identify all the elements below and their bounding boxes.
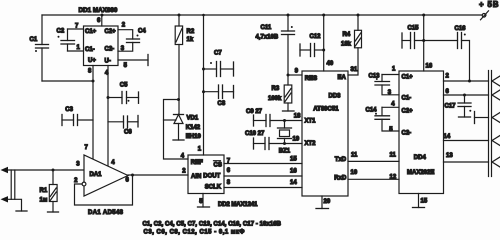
svg-text:BZ1: BZ1 <box>279 149 291 155</box>
svg-text:20: 20 <box>324 199 331 205</box>
svg-text:10: 10 <box>351 170 358 176</box>
svg-text:9: 9 <box>295 68 299 74</box>
crystal BZ1 <box>284 121 286 129</box>
svg-text:AIN: AIN <box>191 174 201 180</box>
pin 15 ground DD4 <box>418 194 420 208</box>
pin 20 ground DD3 <box>321 196 323 209</box>
svg-text:DA1 AD548: DA1 AD548 <box>88 210 124 216</box>
connector contact pin6 <box>492 90 500 100</box>
wire C1 to U+ line <box>42 80 93 82</box>
svg-text:+ 5В: + 5В <box>479 0 499 9</box>
svg-text:C3: C3 <box>65 107 73 113</box>
svg-text:1k: 1k <box>187 37 194 43</box>
IC DD1 MAX680 <box>84 26 119 66</box>
svg-text:6: 6 <box>97 18 101 24</box>
svg-text:1: 1 <box>392 67 396 73</box>
svg-text:C1-: C1- <box>402 95 412 101</box>
svg-text:C7: C7 <box>214 51 222 57</box>
svg-text:XT1: XT1 <box>305 119 317 125</box>
connector contact ground <box>492 113 500 123</box>
svg-text:MAX202E: MAX202E <box>407 170 434 176</box>
svg-text:C2+: C2+ <box>105 29 117 35</box>
resistor R4 18k <box>357 15 359 30</box>
svg-text:C1-: C1- <box>85 47 95 53</box>
svg-text:DOUT: DOUT <box>203 174 220 180</box>
node output junction <box>131 174 134 177</box>
svg-text:C3, C6, C8, C12, C15 - 0,1 мк: C3, C6, C8, C12, C15 - 0,1 мкФ <box>144 230 245 236</box>
svg-text:DD2 MAX1241: DD2 MAX1241 <box>218 202 258 208</box>
svg-text:TxD: TxD <box>335 157 347 163</box>
capacitor C4 <box>127 38 140 40</box>
wire output to AIN <box>128 174 188 176</box>
capacitor C11 <box>287 15 289 31</box>
zener VD1 K142EH19 <box>174 114 184 116</box>
svg-text:C10 27: C10 27 <box>245 131 265 137</box>
svg-text:XT2: XT2 <box>305 141 317 147</box>
svg-text:1: 1 <box>77 45 81 51</box>
svg-text:C2: C2 <box>57 29 65 35</box>
capacitor C3 <box>61 115 63 126</box>
svg-text:VD1: VD1 <box>187 115 199 121</box>
svg-text:C9 27: C9 27 <box>246 109 263 115</box>
pin 6 wire DD4 <box>444 94 489 96</box>
svg-text:C13: C13 <box>369 74 381 80</box>
svg-text:15: 15 <box>290 157 297 163</box>
svg-text:R3: R3 <box>272 86 280 92</box>
connector X1 body <box>488 71 490 177</box>
svg-text:AT89C51: AT89C51 <box>313 107 339 113</box>
svg-text:RES: RES <box>305 76 317 82</box>
svg-text:11: 11 <box>351 153 358 159</box>
wire DOUT bus <box>224 175 302 177</box>
svg-text:EA: EA <box>338 75 347 81</box>
wire REF branch to DD2 <box>164 100 189 160</box>
resistor R1 1M <box>52 170 54 185</box>
svg-text:14: 14 <box>444 134 451 140</box>
svg-text:14: 14 <box>290 180 297 186</box>
svg-text:R4: R4 <box>343 32 351 38</box>
svg-text:C1+: C1+ <box>85 29 97 35</box>
svg-text:K142: K142 <box>186 125 201 131</box>
svg-text:8: 8 <box>88 69 92 75</box>
ground VD1 <box>173 139 184 141</box>
capacitor C17 <box>464 95 466 103</box>
capacitor C6 <box>108 121 124 123</box>
svg-text:C1+: C1+ <box>402 74 414 80</box>
svg-text:REF: REF <box>191 160 203 166</box>
svg-text:C5: C5 <box>120 82 128 88</box>
svg-text:1: 1 <box>198 147 202 153</box>
wire cable shield lines <box>10 170 12 199</box>
pin 4 wire DD4 <box>382 106 399 108</box>
pin 2 input circle <box>82 182 86 186</box>
IC DD3 AT89C51 <box>302 71 348 196</box>
node REF branch <box>177 98 180 101</box>
wire +5V top rail <box>42 14 486 16</box>
ground C17 <box>459 116 471 118</box>
pin 40 DD3 <box>323 15 325 71</box>
svg-text:DD4: DD4 <box>414 155 427 161</box>
connector contact pin13 <box>492 157 500 167</box>
pin 2 wire <box>118 30 133 39</box>
capacitor C16 <box>457 33 459 49</box>
svg-text:C11: C11 <box>261 25 272 31</box>
svg-text:100k: 100k <box>268 96 282 102</box>
svg-text:2: 2 <box>446 74 450 80</box>
wire feedback loop <box>75 175 133 205</box>
svg-text:C17: C17 <box>445 104 457 110</box>
capacitor C14 <box>381 107 383 116</box>
svg-text:7: 7 <box>85 145 89 151</box>
op-amp DA1 <box>84 155 128 196</box>
svg-text:16: 16 <box>290 169 297 175</box>
svg-text:8: 8 <box>227 180 231 186</box>
svg-text:18k: 18k <box>341 42 352 48</box>
svg-text:C2-: C2- <box>402 131 412 137</box>
svg-text:C2-: C2- <box>105 46 115 52</box>
capacitor C9 <box>253 115 255 126</box>
capacitor C7 <box>202 68 205 71</box>
svg-text:R1: R1 <box>40 188 48 194</box>
wire XT1 <box>270 120 302 122</box>
wire SCLK bus <box>224 187 302 189</box>
wire TxD <box>348 160 399 162</box>
pin 13 wire DD4 <box>444 161 489 163</box>
capacitor C2 <box>67 29 69 41</box>
svg-text:C8: C8 <box>218 101 226 107</box>
ground shield <box>16 210 27 212</box>
svg-text:19: 19 <box>293 137 300 143</box>
pin 5 ground DD2 <box>202 194 204 208</box>
connector contact pin14 <box>492 136 500 146</box>
svg-text:CS: CS <box>214 163 222 169</box>
svg-text:DA1: DA1 <box>90 172 103 178</box>
capacitor C15 <box>401 33 403 48</box>
capacitor C13 <box>381 75 383 82</box>
svg-text:6: 6 <box>227 168 231 174</box>
svg-text:RxD: RxD <box>334 176 347 182</box>
svg-text:31: 31 <box>351 67 358 73</box>
svg-text:18: 18 <box>294 114 301 120</box>
connector input terminal top <box>1 167 9 173</box>
svg-text:4,7x10В: 4,7x10В <box>256 35 279 41</box>
svg-text:C15: C15 <box>408 26 420 32</box>
pin 2 wire DD4 <box>444 80 489 82</box>
pin 16 DD4 <box>423 15 425 71</box>
pin 1 wire <box>68 50 84 52</box>
svg-text:C1: C1 <box>30 37 38 43</box>
pin 4 U- line down to op-amp <box>107 66 109 166</box>
IC DD4 MAX202E <box>399 71 444 194</box>
svg-text:13: 13 <box>446 153 453 159</box>
svg-text:1м: 1м <box>40 198 48 204</box>
svg-text:EH19: EH19 <box>186 134 202 140</box>
pin 5 wire with stub <box>118 59 148 61</box>
ground R1 <box>48 211 59 213</box>
ground R3 <box>283 110 295 112</box>
resistor R3 100k <box>287 75 289 85</box>
svg-text:2: 2 <box>74 178 78 184</box>
svg-text:5: 5 <box>124 63 128 69</box>
capacitor C12 <box>299 44 301 56</box>
capacitor C10 <box>253 138 255 149</box>
wire CS bus <box>224 163 302 165</box>
svg-text:C2+: C2+ <box>402 108 414 114</box>
wire shield to ground <box>8 199 22 211</box>
svg-text:R2: R2 <box>187 29 195 35</box>
svg-text:C14: C14 <box>366 108 378 114</box>
svg-text:16: 16 <box>426 63 433 69</box>
svg-text:40: 40 <box>327 61 334 67</box>
svg-text:3: 3 <box>76 162 80 168</box>
connector input terminal bottom <box>1 196 9 202</box>
connector +5V terminal <box>482 14 486 18</box>
svg-text:DD1 MAX680: DD1 MAX680 <box>79 7 118 14</box>
svg-text:5: 5 <box>389 127 393 133</box>
svg-text:2: 2 <box>182 168 186 174</box>
wire XT2 <box>269 143 302 145</box>
wire VDD line to DD2 pin1 <box>203 15 205 155</box>
capacitor C5 <box>107 96 110 99</box>
ground stub connector <box>474 112 476 124</box>
svg-text:C16: C16 <box>455 26 467 32</box>
svg-text:C4: C4 <box>138 29 146 35</box>
wire RxD <box>348 178 399 180</box>
svg-text:6: 6 <box>126 177 130 183</box>
svg-text:4: 4 <box>111 160 115 166</box>
pin 7 wire <box>68 28 84 30</box>
capacitor C1 <box>41 15 43 45</box>
svg-text:U+: U+ <box>88 58 96 64</box>
pin 6 DD1 <box>101 15 103 26</box>
svg-text:2: 2 <box>122 23 126 29</box>
svg-text:DD3: DD3 <box>329 93 342 99</box>
svg-text:12: 12 <box>390 175 397 181</box>
svg-text:SCLK: SCLK <box>205 185 222 191</box>
IC DD2 MAX1241 <box>188 155 224 194</box>
pin 8 U+ line down to op-amp <box>92 66 94 160</box>
pin 14 wire DD4 <box>444 140 489 142</box>
connector contact pin2 <box>492 76 500 86</box>
resistor R2 1k <box>178 15 180 26</box>
svg-text:15: 15 <box>421 198 428 204</box>
wire RES node <box>288 74 302 76</box>
capacitor C8 <box>202 90 205 93</box>
svg-text:C1, C2, C4, C5, C7, C13, C14,: C1, C2, C4, C5, C7, C13, C14, C16, C17 -… <box>143 222 282 228</box>
svg-text:11: 11 <box>390 153 397 159</box>
node rail junction dots <box>101 14 426 17</box>
svg-text:C12: C12 <box>310 34 322 40</box>
svg-text:C6: C6 <box>124 130 132 136</box>
pin 1 wire DD4 <box>382 74 399 76</box>
svg-text:6: 6 <box>446 89 450 95</box>
svg-text:U-: U- <box>105 59 111 65</box>
wire input to op-amp pin3 <box>8 169 84 171</box>
